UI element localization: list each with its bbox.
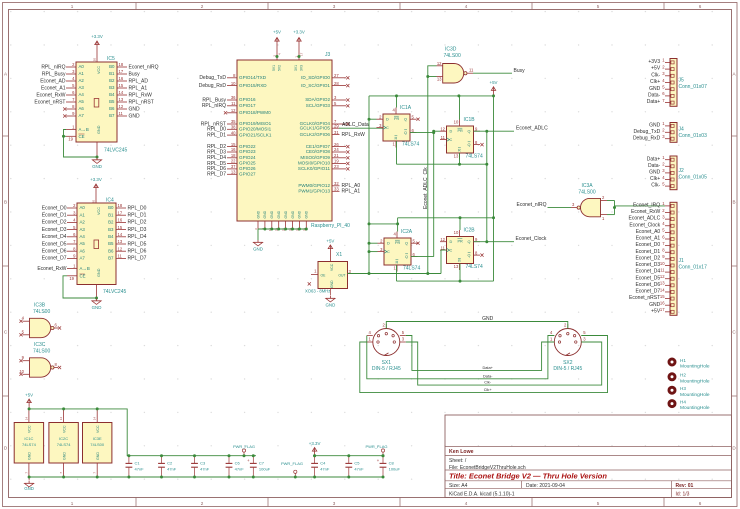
svg-text:Q: Q [404, 118, 407, 122]
svg-text:H3: H3 [680, 386, 686, 391]
svg-text:Econet_D6: Econet_D6 [635, 282, 660, 288]
svg-text:Data+: Data+ [482, 365, 493, 370]
svg-text:10: 10 [231, 81, 236, 86]
DIN connector SX1 [373, 329, 400, 356]
capacitor C4 [314, 456, 316, 463]
svg-text:74LS00: 74LS00 [90, 442, 105, 447]
svg-text:37: 37 [231, 164, 236, 169]
svg-text:B1: B1 [108, 212, 114, 217]
svg-text:RPL_nIRQ: RPL_nIRQ [202, 103, 226, 109]
svg-text:B6: B6 [109, 106, 115, 111]
svg-text:47nF: 47nF [320, 467, 330, 472]
svg-text:DIN-5 / RJ45: DIN-5 / RJ45 [553, 366, 582, 372]
svg-text:26: 26 [334, 142, 339, 147]
svg-text:12: 12 [660, 274, 665, 279]
svg-text:PWR_FLAG: PWR_FLAG [281, 461, 303, 466]
svg-text:Data+: Data+ [647, 99, 661, 105]
capacitor C8 [382, 456, 384, 463]
svg-text:74LS74: 74LS74 [466, 264, 483, 270]
svg-text:MISO0/GPIO9: MISO0/GPIO9 [300, 155, 330, 160]
svg-text:A2: A2 [80, 220, 86, 225]
svg-text:A5: A5 [79, 99, 85, 104]
svg-text:RPL_D1: RPL_D1 [128, 213, 147, 219]
svg-text:+5V: +5V [273, 30, 281, 35]
NAND gate IC3C 74LS00 (unused) [30, 358, 51, 377]
svg-text:47nF: 47nF [135, 467, 145, 472]
crystal oscillator X1 [318, 262, 348, 289]
svg-text:Clk+: Clk+ [650, 176, 660, 182]
svg-text:19: 19 [68, 136, 73, 141]
svg-text:ID_SC/GPIO1: ID_SC/GPIO1 [301, 83, 330, 88]
svg-text:Econet_Clock: Econet_Clock [629, 222, 660, 228]
svg-text:SDA/GPIO2: SDA/GPIO2 [305, 97, 330, 102]
svg-text:B0: B0 [108, 205, 114, 210]
svg-text:74LS74: 74LS74 [57, 442, 72, 447]
X1 +5V power [329, 245, 331, 253]
svg-text:A4: A4 [80, 234, 86, 239]
svg-text:PR: PR [395, 241, 401, 245]
svg-text:C: C [450, 248, 453, 252]
svg-text:19: 19 [334, 159, 339, 164]
svg-text:IC2C: IC2C [59, 436, 68, 441]
svg-text:Econet_Clock: Econet_Clock [516, 236, 547, 242]
svg-text:15: 15 [119, 83, 124, 88]
capacitor C1 [128, 456, 130, 463]
svg-text:+5V: +5V [490, 80, 498, 85]
wire IC1A D tie [369, 118, 377, 120]
svg-text:A→B: A→B [79, 127, 89, 132]
svg-text:D: D [386, 118, 389, 122]
power flag 3 [382, 452, 384, 456]
svg-text:+5V: +5V [651, 66, 661, 72]
svg-text:6: 6 [699, 4, 702, 9]
svg-text:32: 32 [334, 181, 339, 186]
wire +5V rail [28, 406, 30, 409]
svg-text:A1: A1 [80, 212, 86, 217]
capacitor C3 [194, 456, 196, 463]
svg-text:GND: GND [97, 268, 101, 277]
svg-text:IC3E: IC3E [93, 436, 102, 441]
svg-text:H2: H2 [680, 373, 686, 378]
svg-text:4: 4 [465, 501, 468, 506]
svg-text:MountingHole: MountingHole [680, 405, 710, 411]
svg-text:6: 6 [699, 501, 702, 506]
connector J1 Conn_01x17 [670, 202, 677, 315]
svg-text:Debug_RxD: Debug_RxD [199, 83, 227, 89]
svg-text:GPIO22: GPIO22 [239, 144, 256, 149]
wire IC3D inputs [428, 66, 437, 274]
svg-text:RPL_AD: RPL_AD [129, 78, 149, 84]
svg-text:19: 19 [69, 276, 74, 281]
flip-flop IC2B 74LS74 [447, 237, 474, 264]
wire +3.3V rail [315, 455, 383, 457]
connector J5 Conn_01x07 [670, 59, 677, 107]
svg-text:R: R [458, 148, 461, 152]
NAND gate IC3B 74LS00 (unused) [30, 318, 51, 337]
svg-text:GND: GND [97, 125, 101, 134]
svg-text:GND: GND [129, 113, 141, 119]
svg-text:Q: Q [468, 130, 471, 134]
svg-text:Econet_nIRQ: Econet_nIRQ [129, 64, 159, 70]
svg-text:PR: PR [458, 239, 464, 243]
svg-text:Q: Q [404, 131, 407, 135]
svg-text:21: 21 [334, 153, 339, 158]
svg-text:17: 17 [119, 69, 124, 74]
svg-text:IC5: IC5 [107, 56, 115, 62]
svg-text:Econet_D2: Econet_D2 [635, 255, 660, 261]
svg-text:GND: GND [277, 210, 281, 218]
svg-text:16: 16 [118, 218, 123, 223]
svg-text:Rev: 01: Rev: 01 [676, 483, 694, 489]
svg-text:Clk+: Clk+ [484, 387, 493, 392]
svg-text:18: 18 [119, 62, 124, 67]
svg-text:5: 5 [597, 501, 600, 506]
svg-text:MountingHole: MountingHole [680, 364, 710, 370]
svg-text:74LS00: 74LS00 [578, 190, 595, 196]
svg-text:VCC: VCC [62, 425, 66, 433]
svg-text:14: 14 [118, 232, 123, 237]
svg-text:J2: J2 [679, 168, 685, 174]
svg-text:RPL_A1: RPL_A1 [342, 189, 361, 195]
wire PR rail y220 [369, 223, 398, 225]
svg-text:29: 29 [334, 123, 339, 128]
svg-text:B5: B5 [109, 99, 115, 104]
svg-text:GCLK2/GPIO6: GCLK2/GPIO6 [300, 132, 331, 137]
svg-text:11: 11 [441, 135, 446, 140]
svg-text:C4: C4 [320, 461, 326, 466]
svg-text:47nF: 47nF [200, 467, 210, 472]
svg-text:15: 15 [231, 142, 236, 147]
IC4 GND wiring [63, 276, 97, 298]
svg-text:13: 13 [119, 97, 124, 102]
svg-text:Econet_nRST: Econet_nRST [629, 295, 660, 301]
svg-text:Size: A4: Size: A4 [449, 483, 468, 489]
svg-text:File: EconetBridgeV2ThruHole.s: File: EconetBridgeV2ThruHole.sch [449, 465, 526, 471]
svg-text:33: 33 [334, 187, 339, 192]
svg-text:D: D [450, 130, 453, 134]
svg-text:C8: C8 [389, 461, 395, 466]
svg-text:B7: B7 [109, 113, 115, 118]
svg-text:1: 1 [71, 501, 74, 506]
svg-text:GND: GND [326, 303, 336, 308]
svg-text:10: 10 [660, 261, 665, 266]
svg-text:GND: GND [305, 210, 309, 218]
svg-text:13: 13 [231, 170, 236, 175]
svg-text:PWR_FLAG: PWR_FLAG [233, 444, 255, 449]
svg-text:GND: GND [96, 452, 100, 460]
svg-text:IC3B: IC3B [34, 303, 46, 309]
svg-text:Clk+: Clk+ [650, 79, 660, 85]
svg-text:C5: C5 [354, 461, 360, 466]
J3 GND wiring [258, 228, 306, 230]
wire GND rail bottom [29, 476, 383, 478]
svg-text:C: C [450, 138, 453, 142]
wire IC2B Q Econet_Clock [474, 241, 515, 243]
svg-text:D: D [387, 242, 390, 246]
svg-text:GND: GND [649, 170, 661, 176]
svg-text:Clk-: Clk- [484, 380, 492, 385]
svg-text:Econet_ADLC: Econet_ADLC [629, 216, 661, 222]
svg-text:18: 18 [231, 153, 236, 158]
svg-text:RPL_nRST: RPL_nRST [129, 99, 154, 105]
wire Clk- line [406, 342, 602, 385]
svg-text:74LS74: 74LS74 [402, 142, 419, 148]
svg-text:Econet_D6: Econet_D6 [42, 249, 67, 255]
svg-text:R: R [396, 260, 399, 264]
svg-text:RPL_D1: RPL_D1 [207, 132, 226, 138]
svg-text:38: 38 [231, 125, 236, 130]
svg-text:Econet_D1: Econet_D1 [42, 213, 67, 219]
svg-text:13: 13 [454, 154, 459, 159]
svg-text:+3.3V: +3.3V [91, 34, 103, 39]
flip-flop IC1A 74LS74 [383, 114, 410, 141]
svg-text:B2: B2 [108, 220, 114, 225]
svg-text:74LS00: 74LS00 [444, 53, 461, 59]
svg-text:GND: GND [482, 316, 494, 322]
NAND gate IC3A 74LS00 (inverter, mirrored) [581, 198, 601, 216]
svg-text:20: 20 [91, 200, 95, 204]
svg-text:C1: C1 [135, 461, 141, 466]
svg-text:74LVC245: 74LVC245 [103, 289, 126, 295]
svg-text:11: 11 [231, 101, 236, 106]
connector J3 Raspberry_PI_40 [237, 60, 332, 221]
svg-text:VCC: VCC [330, 263, 334, 271]
svg-text:RPL_D7: RPL_D7 [207, 172, 226, 178]
svg-text:GPIO27: GPIO27 [239, 172, 256, 177]
svg-text:Busy: Busy [514, 68, 526, 74]
svg-text:15: 15 [660, 294, 665, 299]
svg-text:RPL_D4: RPL_D4 [128, 234, 147, 240]
svg-text:GND: GND [129, 106, 141, 112]
svg-text:Econet_A1: Econet_A1 [41, 85, 66, 91]
IC4 74LVC245 buffer [77, 203, 116, 285]
svg-text:Data-: Data- [648, 163, 661, 169]
svg-text:Econet_D4: Econet_D4 [635, 269, 660, 275]
spare IC2C 74LS74 [49, 423, 78, 464]
svg-text:27: 27 [334, 73, 339, 78]
svg-text:10: 10 [454, 120, 459, 125]
svg-text:CE1/GPIO7: CE1/GPIO7 [306, 144, 331, 149]
svg-text:GND: GND [649, 302, 661, 308]
svg-text:Date: 2021-09-04: Date: 2021-09-04 [526, 483, 565, 489]
svg-text:GND: GND [256, 210, 260, 218]
+5V power bottom-left [28, 399, 30, 406]
X1 GND [329, 289, 331, 296]
svg-text:RPL_D7: RPL_D7 [128, 256, 147, 262]
svg-text:A1: A1 [79, 71, 85, 76]
connector J4 Conn_01x03 [670, 123, 677, 143]
capacitor C5 [348, 456, 350, 463]
svg-text:PR: PR [394, 117, 400, 121]
svg-text:13: 13 [660, 281, 665, 286]
svg-text:A0: A0 [80, 205, 86, 210]
svg-text:+5V: +5V [651, 308, 661, 314]
svg-text:GND: GND [270, 210, 274, 218]
svg-text:11: 11 [118, 254, 123, 259]
svg-text:RPL_nIRQ: RPL_nIRQ [41, 64, 65, 70]
wire Data- line [367, 336, 555, 379]
svg-text:C: C [387, 250, 390, 254]
svg-text:74LS00: 74LS00 [33, 348, 50, 354]
svg-text:IC1A: IC1A [400, 105, 412, 111]
svg-text:12: 12 [437, 61, 442, 66]
svg-text:3: 3 [333, 501, 336, 506]
svg-text:GPIO23: GPIO23 [239, 149, 256, 154]
svg-text:B7: B7 [108, 256, 114, 261]
svg-text:MOSI0/GPIO10: MOSI0/GPIO10 [298, 161, 331, 166]
wire PR rail y96 [369, 95, 494, 97]
wire IC2A C tie [369, 251, 378, 253]
svg-text:10: 10 [454, 230, 459, 235]
svg-text:14: 14 [93, 417, 97, 421]
svg-text:B2: B2 [109, 78, 115, 83]
svg-text:GND: GND [92, 164, 102, 169]
svg-text:Q: Q [468, 240, 471, 244]
wire IC2A PR [397, 224, 399, 232]
svg-text:3: 3 [333, 4, 336, 9]
svg-text:R: R [395, 136, 398, 140]
svg-text:Data-: Data- [483, 373, 493, 378]
svg-text:RPL_D0: RPL_D0 [128, 205, 147, 211]
connector J2 Conn_01x05 [670, 156, 677, 190]
wire Busy net [473, 72, 512, 74]
svg-text:GND: GND [92, 305, 102, 310]
svg-text:GND: GND [24, 486, 34, 491]
svg-text:A6: A6 [80, 248, 86, 253]
svg-text:20: 20 [92, 58, 96, 62]
svg-text:11: 11 [469, 67, 474, 72]
svg-text:A5: A5 [80, 241, 86, 246]
svg-text:24: 24 [334, 147, 339, 152]
svg-text:28: 28 [334, 81, 339, 86]
svg-text:2: 2 [201, 4, 204, 9]
svg-text:12: 12 [231, 108, 236, 113]
flip-flop IC1B 74LS74 [447, 126, 474, 153]
svg-text:Econet_IRQ: Econet_IRQ [633, 203, 660, 209]
svg-text:Econet_nIRQ: Econet_nIRQ [517, 202, 547, 208]
svg-text:A2: A2 [79, 78, 85, 83]
IC5 GND wiring [64, 130, 98, 158]
svg-text:B5: B5 [108, 241, 114, 246]
svg-text:+5V: +5V [326, 239, 334, 244]
svg-text:5: 5 [597, 4, 600, 9]
svg-text:Econet_AD: Econet_AD [40, 78, 66, 84]
wire IC1B PR [458, 95, 461, 97]
svg-text:Q: Q [468, 253, 471, 257]
svg-text:C7: C7 [259, 461, 265, 466]
svg-text:C3: C3 [200, 461, 206, 466]
svg-text:A6: A6 [79, 106, 85, 111]
power flag 2 on GND [294, 473, 296, 477]
wire gate inputs to J1 pin1 Econet_IRQ [607, 200, 615, 202]
svg-text:12: 12 [440, 237, 445, 242]
svg-text:B: B [4, 200, 7, 205]
spare IC3E 74LS00 [83, 423, 112, 464]
svg-text:Econet_nRST: Econet_nRST [34, 99, 65, 105]
svg-text:J1: J1 [679, 258, 685, 264]
svg-text:Q: Q [468, 143, 471, 147]
svg-text:MountingHole: MountingHole [680, 392, 710, 398]
svg-text:D: D [450, 240, 453, 244]
svg-text:R: R [458, 259, 461, 263]
svg-text:Ken Lowe: Ken Lowe [449, 449, 474, 455]
svg-text:OE: OE [321, 273, 327, 277]
svg-text:74LVC245: 74LVC245 [104, 148, 127, 154]
svg-text:IC1C: IC1C [24, 436, 33, 441]
svg-text:Econet_D1: Econet_D1 [635, 249, 660, 255]
svg-text:35: 35 [231, 119, 236, 124]
svg-text:Debug_RxD: Debug_RxD [633, 135, 661, 141]
svg-text:12: 12 [118, 246, 123, 251]
svg-text:PWM0/GPIO12: PWM0/GPIO12 [298, 183, 330, 188]
svg-text:GPIO26: GPIO26 [239, 166, 256, 171]
svg-text:+3V3: +3V3 [648, 59, 660, 65]
svg-text:C2: C2 [167, 461, 173, 466]
svg-text:31: 31 [334, 130, 339, 135]
svg-text:RPL_D6: RPL_D6 [128, 249, 147, 255]
svg-text:22: 22 [231, 159, 236, 164]
svg-text:VCC: VCC [96, 425, 100, 433]
svg-text:GND: GND [263, 210, 267, 218]
DIN connector SX2 [554, 329, 581, 356]
svg-text:Raspberry_PI_40: Raspberry_PI_40 [311, 223, 350, 229]
svg-text:13: 13 [118, 239, 123, 244]
IC4 +3.3V power [95, 184, 97, 192]
+5V rail top [493, 87, 495, 96]
svg-text:Conn_01x05: Conn_01x05 [679, 175, 708, 181]
NC marks on unused FF outputs [416, 118, 419, 121]
svg-text:17: 17 [300, 52, 304, 56]
wire Econet_ADLC_Clk vertical [433, 133, 435, 257]
wire IC2A D tie [369, 242, 378, 244]
svg-text:+5V: +5V [25, 393, 33, 398]
svg-text:RPL_D3: RPL_D3 [128, 227, 147, 233]
wire vertical x369 [368, 96, 370, 274]
svg-text:RPL_A1: RPL_A1 [129, 85, 148, 91]
svg-text:IC3C: IC3C [34, 342, 46, 348]
J3 +3.3V power [298, 38, 300, 47]
svg-text:IC4: IC4 [106, 198, 114, 204]
svg-text:GND: GND [62, 452, 66, 460]
spare IC1C 74LS74 [14, 423, 43, 464]
svg-text:74LS74: 74LS74 [22, 442, 37, 447]
power flag 1 [243, 452, 245, 456]
svg-text:Econet_D0: Econet_D0 [635, 242, 660, 248]
wire IC1A PR [396, 96, 398, 108]
svg-text:4: 4 [465, 4, 468, 9]
svg-text:XO63 - 8MHz: XO63 - 8MHz [305, 289, 330, 294]
svg-text:Econet_RxW: Econet_RxW [631, 209, 660, 215]
svg-text:Econet_RxW: Econet_RxW [37, 266, 66, 272]
svg-text:36: 36 [231, 95, 236, 100]
capacitor C2 [161, 456, 163, 463]
svg-text:Econet_D7: Econet_D7 [42, 256, 67, 262]
wire X1 clock out [348, 273, 442, 275]
svg-text:47nF: 47nF [167, 467, 177, 472]
svg-text:PWM1/GPIO13: PWM1/GPIO13 [298, 189, 330, 194]
svg-text:Id: 1/3: Id: 1/3 [676, 491, 690, 497]
svg-text:Clk-: Clk- [651, 72, 660, 78]
svg-text:Econet_RxW: Econet_RxW [36, 92, 65, 98]
svg-text:10: 10 [19, 369, 24, 374]
IC5 +3.3V power [96, 41, 98, 49]
svg-text:A7: A7 [79, 113, 85, 118]
svg-text:Q: Q [405, 255, 408, 259]
wire Data+ line [406, 336, 555, 371]
svg-text:A4: A4 [79, 92, 85, 97]
svg-text:47nF: 47nF [354, 467, 364, 472]
svg-text:RPL_RxW: RPL_RxW [342, 132, 366, 138]
